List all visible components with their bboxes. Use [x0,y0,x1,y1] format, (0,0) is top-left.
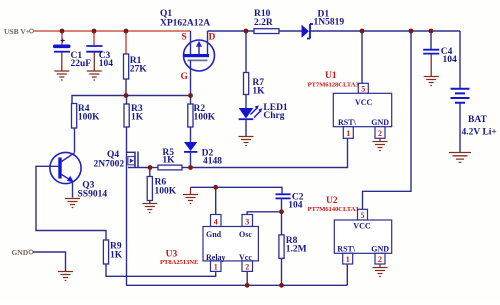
svg-text:4.2V Li+: 4.2V Li+ [462,128,497,138]
svg-text:2: 2 [245,263,249,272]
svg-text:22uF: 22uF [71,59,92,69]
svg-text:1: 1 [346,129,350,138]
wire U3 Gnd pin net [191,187,283,214]
resistor R10 [254,9,279,34]
wire node-to-U1 RST [191,138,348,167]
wire battery bottom [459,103,461,152]
svg-text:S: S [182,33,187,43]
wire D-to-R10 navy rail [208,30,255,32]
wire LED1 down [245,119,247,136]
svg-text:1: 1 [346,255,350,264]
wire R2-to-D2 [190,127,192,142]
wire R2 top stub [190,96,192,105]
capacitor C3 [86,46,113,69]
svg-text:VCC: VCC [355,98,373,107]
svg-text:U3: U3 [166,250,178,260]
svg-text:RST\: RST\ [338,118,357,127]
battery BAT 4.2V Li+ [451,89,497,138]
ground (C1) [54,53,69,81]
wire R3 top stub [126,96,128,105]
wire C3 stub [93,31,95,45]
svg-text:XP162A12A: XP162A12A [160,19,210,29]
wire GND port [33,252,66,271]
svg-text:5: 5 [361,85,365,94]
svg-text:Chrg: Chrg [263,111,284,121]
wire R1 bottom [125,79,127,96]
transistor Q1 labels [160,9,210,29]
svg-text:GND: GND [12,248,29,257]
IC U3 PT8A2513NE [160,215,258,272]
svg-text:Osc: Osc [239,230,252,239]
svg-text:BAT: BAT [468,115,487,125]
svg-text:2: 2 [378,129,382,138]
resistor R2 [188,104,216,127]
svg-text:PT8A2513NE: PT8A2513NE [160,259,199,266]
capacitor C2 [276,193,304,211]
resistor R3 [124,104,144,127]
svg-text:1.2M: 1.2M [286,245,307,255]
wire R6 bottom [149,201,151,204]
capacitor C1 [53,39,91,70]
resistor R8 [279,235,307,259]
svg-text:VCC: VCC [353,222,371,231]
wire Q1 gate down [190,60,192,95]
wire divider rail y95 [72,96,191,104]
transistor Q4 2N7002 [94,150,151,170]
wire U3 Vcc to bottom rail [246,271,248,285]
diode D1 1N5819 [302,10,345,39]
svg-text:SS9014: SS9014 [78,190,108,200]
transistor Q1 (P-MOSFET) [181,31,216,82]
ground (U1 pin2) [373,138,388,150]
svg-text:2: 2 [378,255,382,264]
ground (C3) [87,53,102,81]
wire U1 VCC stub [361,31,363,83]
svg-text:1K: 1K [252,87,265,97]
svg-text:27K: 27K [130,65,148,75]
op-amp U1 PT7M6128CLTA3 [308,71,392,138]
wire R4-to-Q3 collector [74,128,76,153]
wire D2-to-node [190,152,192,168]
svg-text:Q1: Q1 [160,9,172,19]
port USB V+ [4,27,34,36]
svg-text:U2: U2 [326,196,338,206]
svg-text:1K: 1K [110,251,123,261]
svg-text:D: D [209,33,216,43]
wire C1 stub [61,31,63,45]
ground (U3 Gnd net) [183,187,198,203]
ground (battery) [449,153,471,163]
svg-text:GND: GND [371,118,389,127]
svg-text:G: G [181,72,189,82]
svg-text:1K: 1K [131,113,144,123]
svg-text:104: 104 [443,55,458,65]
svg-text:PT7M6128CLTA3: PT7M6128CLTA3 [308,82,360,89]
resistor R6 [147,168,177,201]
wire C2 bottom / Osc node [247,198,281,235]
svg-text:100K: 100K [194,113,216,123]
ground (Q3 emitter) [65,199,80,208]
svg-text:U1: U1 [325,71,337,81]
wire R7-to-LED1 [245,95,247,109]
wire battery top [459,31,461,89]
svg-text:104: 104 [99,59,114,69]
svg-text:4148: 4148 [203,157,222,167]
wire U2 VCC from rail [363,31,412,209]
svg-text:1: 1 [214,263,218,272]
svg-text:1N5819: 1N5819 [314,18,345,28]
resistor R7 [244,73,266,97]
op-amp U2 PT7M6140CLTA3 [308,196,392,264]
svg-text:Q4: Q4 [107,150,119,160]
svg-text:USB V+: USB V+ [4,27,30,36]
svg-text:4: 4 [214,217,218,226]
transistor Q3 SS9014 [50,152,107,199]
wire Q3 base [36,166,106,240]
svg-text:100K: 100K [78,113,100,123]
svg-text:Gnd: Gnd [206,230,222,239]
svg-text:1K: 1K [162,156,175,166]
svg-text:RST\: RST\ [337,245,356,254]
svg-text:3: 3 [245,217,249,226]
resistor R4 [72,104,101,129]
svg-text:100K: 100K [155,187,177,197]
wire R9-to-U3 relay pin [106,264,216,276]
wire R3-to-bottom-rail (gate line) [127,127,348,285]
wire R8 bottom [281,258,283,285]
wire D1-to-battery rail [310,30,460,32]
svg-text:104: 104 [288,201,303,211]
capacitor C4 [423,31,457,65]
resistor R5 [150,148,191,170]
svg-text:GND: GND [371,245,389,254]
wire R10-to-D1 [279,30,302,32]
wire U2 RST to bottom rail [346,264,348,285]
svg-text:2N7002: 2N7002 [94,160,125,170]
svg-text:5: 5 [361,211,365,220]
wire VCC red rail [34,30,191,32]
wire R7 stub [245,31,247,73]
ground (R6) [142,204,157,213]
ground (LED1) [239,137,254,146]
LED1 Chrg [239,103,288,121]
resistor R1 [124,54,148,79]
resistor R9 [103,240,122,264]
ground (C4) [424,55,439,86]
ground (U2 pin2) [373,264,388,277]
port GND [12,248,34,257]
diode D2 4148 [184,142,222,167]
svg-text:PT7M6140CLTA3: PT7M6140CLTA3 [308,206,360,213]
ground (GND port) [58,272,73,281]
svg-text:2.2R: 2.2R [254,18,273,28]
wire R1 stub [125,31,127,54]
